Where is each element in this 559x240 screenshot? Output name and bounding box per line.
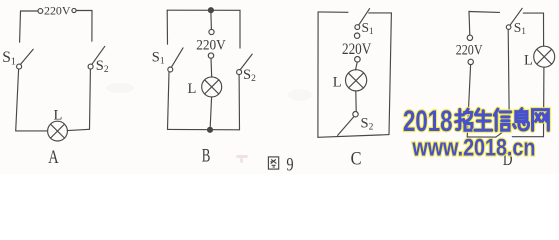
circuit A left wire: [19, 11, 22, 42]
circuit B top wire: [167, 9, 240, 11]
svg-text:www.2018.cn: www.2018.cn: [412, 135, 536, 162]
svg-text:220V: 220V: [456, 43, 483, 59]
svg-text:C: C: [351, 148, 362, 169]
circuit D source terminal bottom: [468, 59, 473, 64]
circuit D right lower wire: [543, 67, 545, 137]
switch S1 (circuit B) pivot: [168, 67, 173, 72]
switch S1 (circuit A) pivot: [17, 64, 22, 69]
svg-text:L: L: [188, 81, 197, 97]
circuit D bottom wire right segment: [512, 136, 543, 138]
circuit A source terminal right: [72, 8, 76, 12]
circuit D right upper wire: [543, 13, 545, 46]
circuit A left lower wire: [16, 69, 19, 131]
switch S2 (circuit A) blade: [92, 46, 105, 64]
circuit C wire source to lamp: [356, 62, 358, 70]
svg-text:9: 9: [286, 155, 293, 174]
svg-text:220V: 220V: [196, 37, 226, 53]
switch S1 (circuit B) blade: [171, 48, 183, 67]
circuit C source terminal: [355, 57, 361, 63]
switch S1 (circuit D) pivot: [506, 25, 511, 30]
circuit A source terminal left: [38, 9, 43, 14]
circuit D top wire left segment: [469, 11, 500, 14]
svg-text:L: L: [524, 53, 533, 69]
svg-text:2018: 2018: [403, 105, 453, 138]
switch S2 (circuit C) pivot: [353, 112, 358, 117]
lamp L (circuit B): [202, 77, 222, 97]
svg-text:S1: S1: [152, 50, 165, 67]
circuit B bottom wire: [168, 128, 240, 130]
svg-text:S2: S2: [96, 58, 109, 75]
svg-text:B: B: [202, 146, 211, 166]
labels circuit A: [2, 6, 533, 170]
figure caption 图 9: [268, 157, 278, 169]
circuit A top wire left segment: [21, 10, 38, 12]
circuit C wire lamp to S2: [355, 91, 357, 111]
circuit D bottom switch blade: [496, 126, 510, 137]
circuit B right upper wire: [239, 10, 241, 48]
watermark glyph 网: [533, 110, 549, 131]
svg-text:S2: S2: [243, 67, 256, 84]
watermark glyph 信: [494, 109, 510, 130]
lamp L (circuit D): [534, 46, 555, 67]
svg-text:220V: 220V: [342, 41, 372, 58]
circuit D left upper wire: [468, 11, 471, 35]
svg-text:S1: S1: [514, 20, 526, 36]
switch S2 (circuit C) blade: [338, 117, 354, 136]
circuit B junction top: [208, 8, 213, 13]
circuit A right upper wire: [91, 11, 93, 42]
circuit A right lower wire: [89, 69, 92, 129]
switch S2 (circuit B) pivot: [237, 70, 242, 75]
watermark glyph 息: [514, 109, 529, 130]
watermark glyph 生: [475, 109, 492, 130]
circuit C top wire right segment: [369, 12, 392, 14]
svg-text:S1: S1: [362, 20, 374, 36]
circuit B source terminal bottom: [208, 53, 213, 58]
circuit D left lower wire: [467, 65, 470, 137]
switch S2 (circuit B) blade: [240, 54, 252, 70]
circuit C right wire: [389, 13, 391, 135]
svg-text:L: L: [54, 107, 63, 123]
watermark line 1: 2018招生信息网: [403, 105, 548, 138]
watermark glyph 招: [456, 109, 472, 130]
lamp L (circuit C): [346, 70, 367, 91]
circuit B junction bottom: [208, 127, 213, 132]
circuit A bottom wire left: [16, 130, 48, 132]
circuit C bottom wire: [318, 135, 389, 138]
circuit A top wire right segment: [76, 10, 92, 12]
circuit C left wire: [317, 12, 319, 137]
switch S2 (circuit A) pivot: [88, 64, 93, 69]
svg-text:L: L: [333, 74, 342, 90]
svg-text:S1: S1: [2, 49, 16, 67]
circuit B wire lamp to bottom: [210, 97, 211, 128]
circuit B right lower wire: [238, 75, 240, 130]
svg-text:220V: 220V: [44, 6, 71, 18]
circuit B left upper wire: [166, 10, 168, 44]
switch S1 (circuit A) blade: [21, 49, 34, 64]
scan smudge 2: [106, 83, 134, 93]
switch S1 (circuit C) fixed contact: [354, 33, 359, 38]
circuit D bottom wire left segment: [467, 136, 496, 138]
circuit B source terminal top: [209, 29, 214, 34]
svg-text:A: A: [48, 147, 59, 168]
circuit B middle wire to source: [210, 13, 213, 30]
lamp L (circuit A): [48, 121, 68, 141]
circuit B wire source to lamp: [210, 58, 213, 77]
circuit D source terminal top: [467, 35, 472, 40]
circuit C top wire left segment: [318, 11, 348, 13]
circuit B left lower wire: [168, 72, 170, 129]
scan smudge 3: [288, 89, 312, 101]
switch S1 (circuit C) blade: [359, 9, 370, 25]
circuit D top wire right segment: [523, 12, 543, 14]
circuit D middle wire: [508, 30, 509, 127]
switch S1 (circuit C) pivot: [355, 25, 360, 30]
switch S1 (circuit D) blade: [510, 8, 522, 25]
scan smudge 1: [236, 155, 248, 163]
svg-text:S2: S2: [361, 115, 374, 132]
circuit A bottom wire right: [67, 129, 89, 130]
